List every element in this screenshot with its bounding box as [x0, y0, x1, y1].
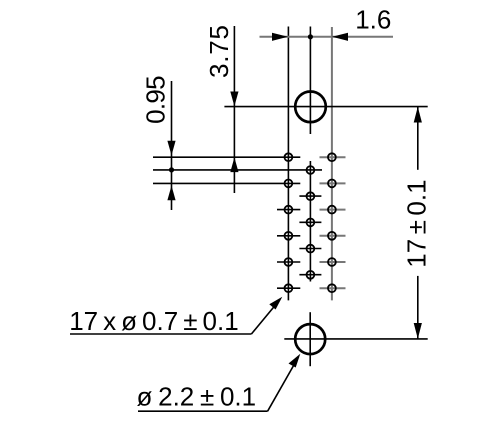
svg-text:1.6: 1.6: [355, 5, 391, 35]
svg-text:0.95: 0.95: [140, 76, 170, 124]
svg-text:17 ± 0.1: 17 ± 0.1: [402, 179, 432, 267]
svg-text:ø 2.2 ± 0.1: ø 2.2 ± 0.1: [137, 382, 257, 412]
svg-text:17 x ø 0.7 ± 0.1: 17 x ø 0.7 ± 0.1: [69, 306, 238, 336]
svg-text:3.75: 3.75: [204, 24, 234, 78]
